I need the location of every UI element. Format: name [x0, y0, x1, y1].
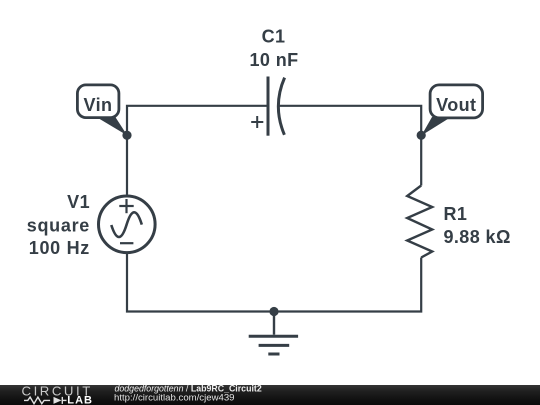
svg-text:9.88 kΩ: 9.88 kΩ [444, 227, 511, 247]
svg-text:LAB: LAB [67, 395, 93, 405]
svg-text:V1: V1 [67, 192, 90, 212]
svg-text:C1: C1 [262, 27, 286, 47]
svg-text:http://circuitlab.com/cjew439: http://circuitlab.com/cjew439 [114, 393, 235, 404]
svg-text:R1: R1 [444, 204, 468, 224]
svg-text:100 Hz: 100 Hz [29, 238, 90, 258]
svg-text:Vout: Vout [436, 95, 476, 115]
svg-text:square: square [27, 215, 90, 235]
svg-text:10 nF: 10 nF [249, 50, 298, 70]
svg-text:Vin: Vin [84, 95, 113, 115]
